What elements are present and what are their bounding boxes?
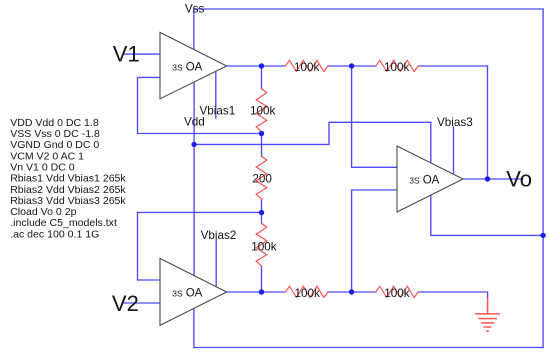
svg-text:100k: 100k bbox=[384, 287, 410, 300]
wire Vbias2 stub bbox=[215, 239, 217, 286]
junction node A bbox=[349, 63, 354, 68]
junction node U3 Vss on right rail bbox=[540, 233, 545, 238]
junction node Vo bbox=[485, 176, 490, 181]
wire node B up to U3 non-inverting input bbox=[352, 190, 397, 292]
junction node B bbox=[349, 289, 354, 294]
wire Vss top rail bbox=[194, 8, 543, 10]
junction node Vdd bbox=[191, 142, 196, 147]
svg-text:100k: 100k bbox=[251, 241, 277, 254]
svg-text:3SOA: 3SOA bbox=[409, 174, 439, 186]
wire Vdd step over to op-amp U3 bbox=[194, 122, 431, 163]
wire Vdd stub from U1 bottom bbox=[193, 82, 195, 144]
svg-text:V1: V1 bbox=[113, 41, 140, 66]
resistor R5 100k vertical top of gain chain bbox=[256, 89, 267, 132]
resistor R4 100k horizontal bottom-right bbox=[376, 286, 419, 297]
resistor R7 100k vertical bottom of gain chain bbox=[256, 223, 267, 266]
svg-text:V2: V2 bbox=[112, 291, 139, 316]
junction node R5-R6 bbox=[259, 131, 264, 136]
svg-text:VDD Vdd 0 DC 1.8: VDD Vdd 0 DC 1.8 bbox=[10, 117, 99, 129]
wire Vbias1 stub bbox=[215, 71, 217, 118]
svg-text:.ac dec 100 0.1 1G: .ac dec 100 0.1 1G bbox=[10, 228, 99, 240]
wire V2 input bbox=[124, 302, 160, 304]
resistor R3 100k horizontal bottom-left bbox=[286, 286, 329, 297]
wire U2 output to R3 bbox=[262, 291, 286, 293]
wire R5 top lead bbox=[261, 66, 263, 89]
wire U1 output bbox=[227, 65, 262, 67]
wire U1 feedback loop bbox=[138, 77, 262, 133]
svg-text:.include C5_models.txt: .include C5_models.txt bbox=[10, 217, 117, 229]
junction node U2 output bbox=[259, 289, 264, 294]
svg-text:Rbias3 Vdd Vbias3 265k: Rbias3 Vdd Vbias3 265k bbox=[10, 195, 126, 207]
wire V1 input bbox=[124, 53, 160, 55]
resistor R6 200 gain resistor bbox=[256, 156, 267, 199]
svg-text:100k: 100k bbox=[250, 105, 276, 118]
wire R1 to node A bbox=[328, 65, 352, 67]
op-amp U2 bbox=[160, 258, 227, 325]
op-amp U1 bbox=[160, 32, 227, 98]
junction node R6-R7 bbox=[259, 210, 264, 215]
wire Vo label stub bbox=[488, 178, 523, 180]
wire Vss right rail bbox=[542, 9, 544, 348]
svg-text:VCM V2 0 AC 1: VCM V2 0 AC 1 bbox=[10, 150, 84, 162]
svg-text:100k: 100k bbox=[384, 61, 410, 74]
op-amp U3 bbox=[397, 146, 463, 212]
svg-text:Vss: Vss bbox=[185, 3, 205, 16]
svg-text:Vo: Vo bbox=[506, 166, 532, 191]
wire Vss bottom rail bbox=[194, 347, 543, 349]
svg-text:Rbias1 Vdd Vbias1 265k: Rbias1 Vdd Vbias1 265k bbox=[10, 173, 126, 185]
wire R4 to ground corner bbox=[418, 292, 487, 298]
wire U3 Vss pin to right rail bbox=[431, 195, 543, 235]
wire feedback down to Vo node bbox=[487, 66, 489, 179]
wire U2 Vss pin to bottom rail bbox=[193, 308, 195, 347]
svg-text:Vbias3: Vbias3 bbox=[437, 116, 473, 129]
wire node A to R2 bbox=[352, 65, 376, 67]
svg-text:200: 200 bbox=[252, 173, 272, 186]
svg-text:Vbias1: Vbias1 bbox=[200, 105, 236, 118]
wire R6 leads bbox=[261, 134, 263, 157]
wire R3 to node B bbox=[328, 291, 352, 293]
resistor R1 100k horizontal top-left bbox=[286, 60, 329, 71]
wire U3 output bbox=[463, 178, 488, 180]
wire U2 feedback loop bbox=[138, 212, 262, 280]
svg-text:3SOA: 3SOA bbox=[172, 61, 202, 73]
wire node A down to U3 inverting input bbox=[352, 66, 397, 167]
wire U2 output bbox=[227, 291, 262, 293]
svg-text:3SOA: 3SOA bbox=[172, 287, 202, 299]
svg-text:Vbias2: Vbias2 bbox=[201, 229, 237, 242]
resistor R2 100k horizontal top-right bbox=[376, 60, 419, 71]
ground bbox=[476, 298, 499, 331]
wire node B to R4 bbox=[352, 291, 376, 293]
spice directive text block bbox=[10, 117, 126, 240]
wire U1 output to R1 bbox=[262, 65, 286, 67]
svg-text:100k: 100k bbox=[295, 287, 321, 300]
wire Vss stub to op-amp U1 top bbox=[193, 9, 195, 50]
wire Vbias3 stub bbox=[453, 127, 455, 174]
wire R7 leads bbox=[261, 212, 263, 223]
wire Vdd rail down to op-amp U2 bbox=[193, 144, 195, 275]
wire R2 to feedback corner bbox=[418, 65, 487, 67]
junction node U1 output bbox=[259, 63, 264, 68]
svg-text:100k: 100k bbox=[294, 61, 320, 74]
